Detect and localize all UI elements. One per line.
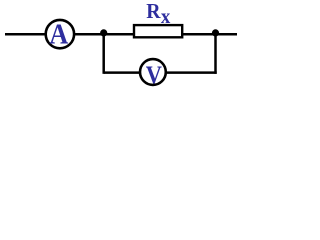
- voltmeter V circle: [140, 59, 166, 85]
- ammeter A circle: [46, 20, 74, 48]
- wire main horizontal right section: [183, 33, 237, 36]
- resistor Rx body: [134, 25, 182, 37]
- svg-text:x: x: [161, 5, 171, 28]
- wire vertical right branch: [214, 34, 217, 74]
- wire main horizontal left section: [5, 33, 134, 36]
- wire bottom horizontal: [104, 71, 217, 74]
- svg-text:R: R: [146, 1, 160, 24]
- wire vertical left branch: [102, 34, 105, 74]
- node junction left: [100, 29, 107, 36]
- svg-text:V: V: [146, 62, 162, 89]
- node junction right: [212, 29, 219, 36]
- svg-text:A: A: [49, 17, 68, 50]
